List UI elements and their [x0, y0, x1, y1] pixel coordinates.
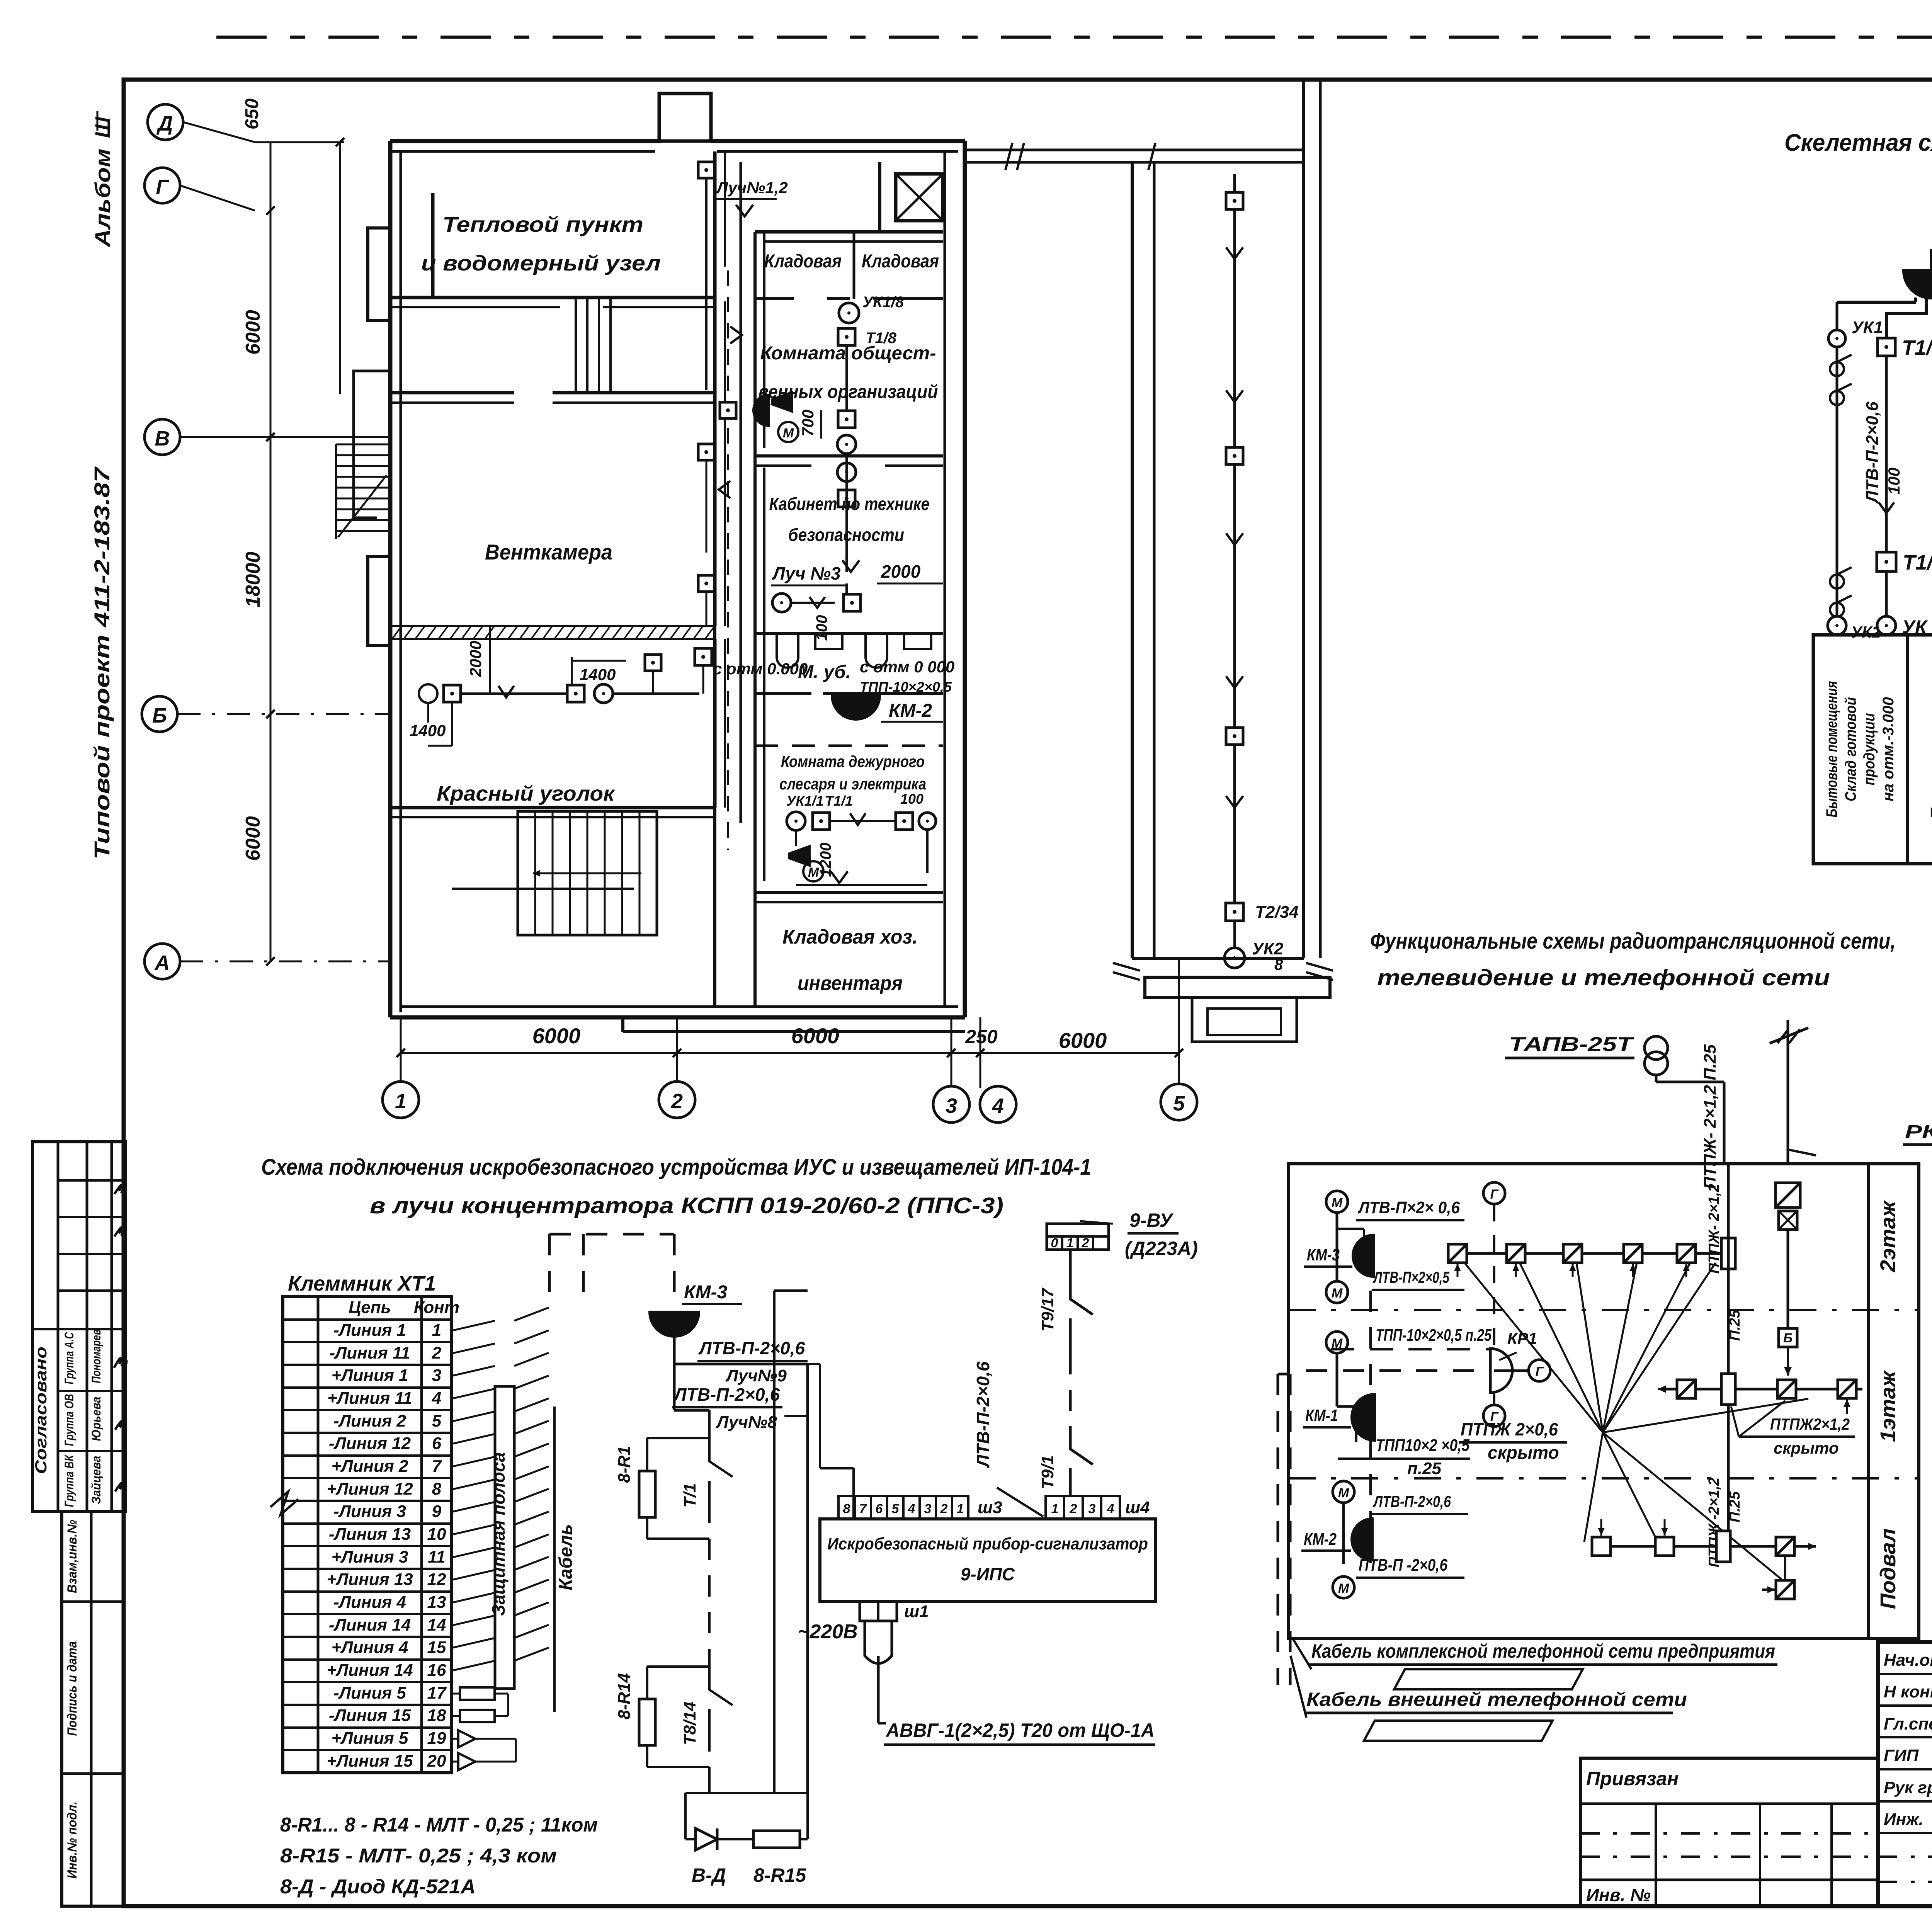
svg-text:Гл.спец.: Гл.спец.	[1884, 1714, 1932, 1733]
device box 9-IPS	[820, 1519, 1155, 1602]
bell KM-2 func	[1352, 1519, 1372, 1560]
svg-text:3: 3	[946, 1094, 957, 1117]
svg-text:Зайцева: Зайцева	[89, 1456, 103, 1504]
detector T2/34 strip	[1226, 903, 1243, 921]
svg-text:8: 8	[432, 1480, 442, 1498]
svg-text:РК-75-4-15: РК-75-4-15	[1905, 1122, 1932, 1142]
svg-text:Юрьева: Юрьева	[89, 1397, 103, 1441]
insulated wall hatch	[390, 626, 715, 639]
svg-text:9: 9	[432, 1502, 442, 1521]
svg-text:Т8/14: Т8/14	[680, 1702, 699, 1745]
svg-text:Технологическое: Технологическое	[1927, 680, 1932, 818]
svg-text:с отм 0.000: с отм 0.000	[713, 660, 808, 678]
svg-text:Г: Г	[1490, 1410, 1499, 1424]
svg-text:Скелетная схема сети пожарно: Скелетная схема сети пожарной сигнализац…	[1784, 129, 1932, 156]
circle UK2/8 strip	[1225, 948, 1245, 968]
svg-text:Б: Б	[152, 704, 167, 727]
svg-text:-Линия 12: -Линия 12	[329, 1434, 411, 1453]
svg-text:ТПП-10×2×0,5 п.25: ТПП-10×2×0,5 п.25	[1376, 1326, 1492, 1345]
svg-text:П.25: П.25	[1727, 1491, 1743, 1522]
svg-text:-Линия 3: -Линия 3	[333, 1502, 406, 1521]
bell KM-3 func	[1353, 1235, 1374, 1277]
svg-text:2: 2	[1082, 1236, 1089, 1250]
svg-text:-Линия 4: -Линия 4	[333, 1593, 406, 1612]
svg-text:12: 12	[427, 1570, 446, 1589]
svg-text:14: 14	[427, 1616, 446, 1634]
plan outer walls	[390, 139, 661, 143]
bell KM-3 ius	[650, 1312, 699, 1337]
right strip cable line	[1233, 174, 1236, 912]
svg-text:6000: 6000	[532, 1024, 581, 1048]
svg-text:8-R14: 8-R14	[615, 1673, 634, 1719]
svg-text:ЛТВ-П-2×0,6: ЛТВ-П-2×0,6	[1373, 1492, 1451, 1510]
svg-text:КМ-2: КМ-2	[1304, 1530, 1337, 1549]
dimension 1400 markers in red corner	[419, 684, 437, 703]
svg-text:с отм 0 000: с отм 0 000	[860, 658, 954, 676]
svg-text:ПТПЖ- 2×1,2 П.25: ПТПЖ- 2×1,2 П.25	[1701, 1044, 1719, 1189]
dashed line with T9 contacts	[1069, 1250, 1072, 1275]
fan of wires	[1520, 1263, 1603, 1432]
terminal table XT1	[283, 1297, 451, 1773]
floor divider 2/1	[1289, 1309, 1919, 1311]
svg-text:Кладовая хоз.: Кладовая хоз.	[782, 926, 918, 948]
KM-2 bell on plan	[832, 696, 880, 719]
svg-text:Согласовано: Согласовано	[32, 1347, 50, 1474]
svg-text:100: 100	[900, 791, 923, 807]
bottom outer wall	[390, 1015, 965, 1020]
svg-text:Г: Г	[1490, 1187, 1499, 1202]
svg-text:+Линия 2: +Линия 2	[332, 1457, 408, 1476]
axis circle 2	[659, 1082, 695, 1118]
svg-text:Луч№1,2: Луч№1,2	[716, 179, 788, 197]
svg-text:-Линия 14: -Линия 14	[329, 1616, 411, 1634]
svg-text:Тепловой пункт: Тепловой пункт	[442, 212, 643, 236]
svg-text:11: 11	[428, 1548, 446, 1566]
svg-text:ПТВ-П -2×0,6: ПТВ-П -2×0,6	[1359, 1556, 1447, 1575]
inner dashed shaft	[1369, 1291, 1372, 1563]
svg-text:-Линия 1: -Линия 1	[333, 1321, 406, 1340]
TV splitter B	[1779, 1328, 1797, 1347]
cable riser lines	[740, 162, 742, 823]
svg-text:Кладовая: Кладовая	[862, 251, 939, 272]
svg-text:2: 2	[1070, 1502, 1077, 1516]
right outer wall of main block	[963, 141, 967, 1017]
svg-text:700: 700	[799, 410, 817, 437]
svg-text:ш3: ш3	[978, 1498, 1002, 1517]
left long wire	[773, 1291, 776, 1793]
svg-text:в лучи концентратора КСПП: в лучи концентратора КСПП 019-20/60-2 (П…	[370, 1193, 1003, 1218]
grid axis circle A	[145, 944, 180, 979]
svg-text:Искробезопасный прибор-сигнал: Искробезопасный прибор-сигнализатор	[827, 1534, 1148, 1553]
M circle 2	[1326, 1281, 1348, 1303]
svg-text:2000: 2000	[881, 561, 921, 582]
duty room	[755, 745, 943, 747]
rows below names	[1878, 1855, 1932, 1858]
svg-text:Б: Б	[1783, 1331, 1793, 1345]
svg-text:9-ВУ: 9-ВУ	[1129, 1209, 1174, 1231]
svg-text:8-R15: 8-R15	[753, 1864, 806, 1886]
svg-text:250: 250	[965, 1026, 998, 1048]
M circle duty room	[788, 846, 810, 866]
svg-text:Кладовая: Кладовая	[764, 251, 842, 272]
svg-text:Д: Д	[156, 112, 173, 135]
diode jumpers rows 17-20	[460, 1687, 495, 1700]
KM-2 drop lines	[1886, 298, 1926, 339]
svg-text:КМ-3: КМ-3	[1307, 1245, 1340, 1264]
svg-text:Ш: Ш	[90, 116, 115, 138]
svg-text:Нач.отд.: Нач.отд.	[1884, 1651, 1932, 1670]
svg-text:5: 5	[1173, 1092, 1185, 1115]
svg-text:Инж.: Инж.	[1884, 1810, 1923, 1829]
wire drops red corner	[613, 692, 699, 695]
grid axis circle G	[145, 168, 180, 203]
svg-text:2: 2	[432, 1344, 442, 1362]
svg-text:4: 4	[1107, 1502, 1114, 1516]
svg-text:+Линия 3: +Линия 3	[332, 1548, 408, 1566]
svg-text:1: 1	[1066, 1236, 1074, 1250]
M circle 1	[1326, 1191, 1348, 1213]
svg-text:Т9/1: Т9/1	[1038, 1455, 1057, 1489]
svg-text:Г: Г	[1536, 1364, 1544, 1379]
svg-text:М: М	[1332, 1336, 1343, 1351]
svg-text:1400: 1400	[580, 665, 616, 684]
svg-text:Кабинет по технике: Кабинет по технике	[769, 494, 930, 514]
svg-text:ЛТВ-П-2×0,6: ЛТВ-П-2×0,6	[973, 1361, 993, 1468]
svg-text:Луч №3: Луч №3	[772, 563, 841, 583]
svg-text:Типовой проект 411-2-183.87: Типовой проект 411-2-183.87	[90, 466, 114, 860]
ray label 1,2	[698, 162, 714, 178]
svg-text:на отм.-3.000: на отм.-3.000	[1880, 697, 1897, 801]
horizontal dimension chain bottom	[401, 1052, 1179, 1054]
svg-text:Красный уголок: Красный уголок	[437, 782, 616, 805]
svg-text:УК1/1: УК1/1	[786, 793, 824, 809]
svg-text:телевидение и телефонной с: телевидение и телефонной сети	[1377, 965, 1830, 990]
svg-text:ТАПВ-25Т: ТАПВ-25Т	[1509, 1033, 1634, 1056]
svg-text:КМ-2: КМ-2	[889, 701, 932, 721]
left risers dashed	[1277, 1374, 1279, 1685]
svg-text:18000: 18000	[242, 552, 264, 608]
svg-text:6000: 6000	[1059, 1028, 1107, 1053]
svg-text:19: 19	[427, 1729, 446, 1748]
bottom loop with diode and 8-R15	[708, 1767, 711, 1793]
svg-text:Цепь: Цепь	[349, 1298, 391, 1317]
svg-text:7: 7	[432, 1457, 442, 1476]
svg-text:Луч№8: Луч№8	[716, 1413, 777, 1432]
duct shaft lines	[575, 298, 577, 393]
svg-text:В-Д: В-Д	[692, 1864, 726, 1886]
svg-text:ш1: ш1	[904, 1602, 929, 1621]
svg-text:4: 4	[992, 1094, 1004, 1117]
svg-text:-Линия 11: -Линия 11	[329, 1344, 410, 1362]
left chain bottom circles	[1830, 575, 1844, 588]
svg-text:17: 17	[427, 1684, 447, 1702]
circle UK2	[1828, 616, 1846, 635]
bell KM-1 func	[1352, 1394, 1375, 1440]
fan to basement	[1584, 1432, 1603, 1542]
wall below heat unit	[390, 391, 514, 395]
svg-text:М: М	[1338, 1486, 1349, 1500]
svg-text:ЛТВ-П-2×0,6: ЛТВ-П-2×0,6	[673, 1384, 780, 1405]
svg-text:ПТПЖ 2×0,6: ПТПЖ 2×0,6	[1461, 1419, 1558, 1439]
ray 3 mark	[842, 560, 859, 572]
G circle mid	[1494, 1369, 1529, 1372]
svg-text:8: 8	[843, 1502, 850, 1516]
detector Т1/20	[1877, 552, 1896, 571]
sidebar approval table	[32, 1142, 125, 1512]
svg-text:+Линия 13: +Линия 13	[327, 1570, 413, 1589]
signature squiggles sidebar	[114, 1357, 126, 1368]
storeroom inventory room	[755, 891, 943, 894]
svg-text:6: 6	[876, 1502, 883, 1516]
vent chamber room	[713, 267, 717, 626]
svg-text:ЛТВ-П-2×0,6: ЛТВ-П-2×0,6	[698, 1338, 805, 1358]
svg-text:Комната общест-: Комната общест-	[760, 343, 936, 364]
svg-text:+Линия 15: +Линия 15	[327, 1752, 413, 1770]
subscriber loudspeaker KR1	[1490, 1349, 1512, 1393]
grid axis circle B	[142, 696, 177, 732]
svg-text:-Линия 13: -Линия 13	[329, 1525, 411, 1544]
svg-text:6000: 6000	[242, 816, 264, 861]
svg-text:Функциональные схемы радиотран: Функциональные схемы радиотрансляционной…	[1370, 929, 1896, 954]
svg-text:5: 5	[892, 1502, 900, 1516]
svg-text:8-Д - Диод КД-521А: 8-Д - Диод КД-521А	[280, 1876, 476, 1898]
svg-text:Т/1: Т/1	[680, 1483, 699, 1508]
right strip walls	[1131, 162, 1134, 958]
TV mast symbol	[1787, 1020, 1789, 1164]
roof protrusion box	[659, 94, 711, 141]
svg-text:Т1/20: Т1/20	[1903, 551, 1932, 574]
title block frame	[1878, 1642, 1932, 1906]
axis circle 4	[980, 1086, 1016, 1122]
svg-text:инвентаря: инвентаря	[798, 972, 903, 995]
svg-text:Г: Г	[156, 175, 170, 199]
grid axis circle D	[148, 104, 183, 140]
M circle 4	[1333, 1481, 1354, 1503]
svg-text:1: 1	[395, 1090, 406, 1113]
basement outlet row	[1601, 1545, 1816, 1548]
svg-text:Склад готовой: Склад готовой	[1842, 697, 1859, 801]
svg-text:2этаж: 2этаж	[1876, 1200, 1900, 1272]
svg-text:слесаря и электрика: слесаря и электрика	[779, 775, 926, 793]
vertical dimension chain	[270, 142, 272, 961]
svg-text:-Линия 2: -Линия 2	[333, 1412, 406, 1430]
connector sh4	[1046, 1496, 1064, 1519]
functional scheme main box	[1289, 1164, 1919, 1639]
svg-text:М: М	[1332, 1196, 1343, 1210]
TV devices column	[1776, 1183, 1800, 1207]
sheet top edge (scan artifact)	[216, 36, 1932, 39]
G circle top	[1483, 1182, 1505, 1204]
svg-text:Рук гр.: Рук гр.	[1884, 1778, 1932, 1797]
svg-text:скрыто: скрыто	[1488, 1442, 1559, 1463]
zone table frame	[1813, 635, 1932, 864]
floor divider 1/basement	[1289, 1477, 1919, 1480]
svg-text:Луч№9: Луч№9	[725, 1366, 787, 1385]
svg-text:Т1/1: Т1/1	[825, 793, 853, 809]
svg-text:3: 3	[1088, 1502, 1096, 1516]
svg-text:ТПП10×2 ×0,5: ТПП10×2 ×0,5	[1376, 1436, 1469, 1455]
svg-text:8-R1: 8-R1	[615, 1446, 634, 1483]
privyazan table	[1580, 1758, 1878, 1906]
svg-text:ш4: ш4	[1125, 1498, 1150, 1517]
svg-text:Конт: Конт	[414, 1298, 459, 1317]
break mark on XT1	[270, 1492, 298, 1515]
parallelogram 2	[1364, 1721, 1553, 1741]
svg-text:15: 15	[427, 1638, 446, 1657]
heat unit room walls	[431, 193, 435, 298]
svg-text:-Линия 5: -Линия 5	[333, 1684, 406, 1702]
top corridor to right strip	[965, 149, 1304, 151]
dashed link between contacts	[708, 1539, 711, 1667]
svg-text:п.25: п.25	[1407, 1459, 1442, 1478]
svg-text:Комната дежурного: Комната дежурного	[781, 752, 925, 770]
svg-text:13: 13	[427, 1593, 446, 1612]
svg-text:20: 20	[427, 1752, 446, 1770]
svg-text:+Линия 1: +Линия 1	[332, 1366, 408, 1385]
V mark top corridor	[736, 205, 753, 216]
svg-text:100: 100	[1885, 468, 1903, 495]
svg-text:6000: 6000	[242, 310, 264, 355]
community room detectors	[839, 303, 859, 323]
svg-text:+Линия 4: +Линия 4	[332, 1638, 408, 1657]
terminal УК 1/11	[1877, 616, 1896, 635]
svg-text:+Линия 12: +Линия 12	[327, 1480, 413, 1498]
svg-text:Группа ОВ: Группа ОВ	[62, 1394, 76, 1446]
svg-text:Группа А.С: Группа А.С	[62, 1332, 76, 1384]
svg-text:ПТПЖ2×1,2: ПТПЖ2×1,2	[1770, 1415, 1850, 1433]
svg-text:+Линия 11: +Линия 11	[327, 1389, 412, 1408]
svg-text:ГИП: ГИП	[1884, 1746, 1919, 1765]
svg-text:Т9/17: Т9/17	[1038, 1287, 1057, 1332]
basement lower outlet	[1784, 1556, 1786, 1580]
svg-text:16: 16	[427, 1661, 446, 1680]
svg-text:2: 2	[940, 1502, 948, 1516]
svg-text:1: 1	[957, 1502, 964, 1516]
safety office room	[837, 463, 856, 481]
svg-text:М: М	[783, 426, 794, 440]
svg-text:Альбом: Альбом	[90, 149, 115, 248]
1st floor outlet row	[1663, 1388, 1862, 1391]
sidebar inventory table	[62, 1512, 124, 1906]
svg-text:1: 1	[1051, 1502, 1059, 1516]
svg-text:КМ-3: КМ-3	[684, 1282, 727, 1303]
svg-text:КМ-1: КМ-1	[1305, 1406, 1338, 1425]
protective strip	[495, 1386, 514, 1689]
svg-text:(Д223А): (Д223А)	[1125, 1238, 1198, 1259]
svg-text:П.25: П.25	[1727, 1310, 1743, 1341]
svg-text:А: А	[154, 951, 170, 975]
svg-text:0: 0	[1051, 1236, 1058, 1250]
svg-text:ЛТВ-П×2× 0,6: ЛТВ-П×2× 0,6	[1357, 1198, 1460, 1217]
svg-text:Кабель: Кабель	[556, 1524, 576, 1590]
entry stair hatch (outside)	[336, 444, 389, 446]
grid axis circle V	[145, 419, 180, 455]
svg-text:650: 650	[242, 99, 262, 129]
svg-text:Т2/34: Т2/34	[1255, 903, 1299, 922]
svg-text:Схема подключения искробезоп: Схема подключения искробезопасного устро…	[261, 1155, 1091, 1180]
svg-text:5: 5	[432, 1412, 442, 1430]
wire from connector to lower area	[852, 1468, 855, 1519]
9-VU box (D223A)	[1047, 1224, 1109, 1250]
svg-text:Привязан: Привязан	[1586, 1768, 1679, 1789]
sanitary rooms walls	[755, 632, 943, 635]
wires KM-3	[1336, 1213, 1338, 1281]
svg-text:Инв. №: Инв. №	[1586, 1885, 1651, 1905]
dashed cable route to KM-3	[548, 1234, 551, 1298]
svg-text:10: 10	[427, 1525, 446, 1544]
axis circle 3	[933, 1086, 969, 1122]
svg-text:4: 4	[432, 1389, 441, 1408]
svg-text:Взам,инв.№: Взам,инв.№	[65, 1520, 80, 1593]
red corner room	[713, 639, 717, 808]
svg-text:8-R15 - МЛТ- 0,25 ; 4,3 ком: 8-R15 - МЛТ- 0,25 ; 4,3 ком	[280, 1845, 557, 1867]
svg-text:М: М	[1332, 1286, 1343, 1301]
left outer wall	[388, 141, 393, 1017]
G circle bottom	[1493, 1393, 1495, 1405]
svg-text:скрыто: скрыто	[1774, 1439, 1839, 1457]
svg-text:1400: 1400	[410, 721, 446, 740]
svg-text:6: 6	[432, 1434, 442, 1453]
svg-text:и водомерный узел: и водомерный узел	[421, 251, 661, 275]
wires table to strip	[451, 1321, 495, 1331]
svg-text:АВВГ-1(2×2,5) Т20 от ЩО-1А: АВВГ-1(2×2,5) Т20 от ЩО-1А	[885, 1719, 1155, 1741]
svg-text:Инв.№ подл.: Инв.№ подл.	[65, 1801, 80, 1879]
lift shaft	[896, 174, 943, 221]
svg-text:Подпись и дата: Подпись и дата	[65, 1641, 80, 1736]
svg-text:Клеммник ХТ1: Клеммник ХТ1	[288, 1272, 436, 1295]
svg-text:Защитная полоса: Защитная полоса	[488, 1452, 509, 1616]
svg-text:Кабель комплексной телефонной: Кабель комплексной телефонной сети предп…	[1311, 1640, 1775, 1662]
svg-text:Н контр.: Н контр.	[1884, 1682, 1932, 1701]
svg-text:Кабель внешней телефонной се: Кабель внешней телефонной сети	[1306, 1689, 1687, 1710]
svg-text:УК1: УК1	[1852, 318, 1883, 337]
axis circle 5	[1161, 1084, 1197, 1120]
svg-text:Группа ВК: Группа ВК	[62, 1454, 76, 1507]
svg-text:УК1/8: УК1/8	[862, 294, 904, 311]
junction box 2nd floor	[1721, 1238, 1735, 1269]
svg-text:2000: 2000	[466, 641, 485, 677]
svg-text:+Линия 5: +Линия 5	[332, 1729, 408, 1748]
svg-text:ПТПЖ- 2×1,2: ПТПЖ- 2×1,2	[1706, 1184, 1722, 1274]
svg-text:Венткамера: Венткамера	[485, 540, 612, 564]
svg-text:М: М	[1338, 1581, 1349, 1596]
svg-text:~220В: ~220В	[798, 1621, 858, 1643]
M circle 5	[1333, 1577, 1354, 1598]
svg-text:КР1: КР1	[1507, 1329, 1537, 1347]
corridor walls (riser shaft)	[713, 151, 716, 1007]
svg-text:-Линия 15: -Линия 15	[329, 1706, 411, 1725]
svg-text:ЛТВ-П×2×0,5: ЛТВ-П×2×0,5	[1373, 1268, 1450, 1286]
svg-text:9-ИПС: 9-ИПС	[961, 1564, 1015, 1584]
svg-text:1этаж: 1этаж	[1876, 1370, 1900, 1442]
svg-text:+Линия 14: +Линия 14	[327, 1661, 413, 1680]
svg-text:продукции: продукции	[1861, 713, 1878, 786]
bell KM-2	[1903, 270, 1932, 298]
connector sh3	[838, 1496, 855, 1519]
svg-text:Пономарев: Пономарев	[89, 1329, 103, 1383]
svg-text:УК2: УК2	[1252, 939, 1284, 958]
M circle 3	[1326, 1332, 1348, 1353]
riser line x4473	[1727, 1164, 1730, 1561]
main stair flight	[518, 811, 657, 935]
svg-text:8-R1... 8 - R14 - МЛТ - 0,25: 8-R1... 8 - R14 - МЛТ - 0,25 ; 11ком	[280, 1814, 598, 1836]
svg-text:7: 7	[859, 1502, 867, 1516]
svg-text:18: 18	[427, 1706, 446, 1725]
svg-text:Подвал: Подвал	[1876, 1529, 1900, 1609]
svg-text:2: 2	[671, 1090, 683, 1113]
plug sh1	[860, 1602, 897, 1621]
svg-text:3: 3	[924, 1502, 932, 1516]
